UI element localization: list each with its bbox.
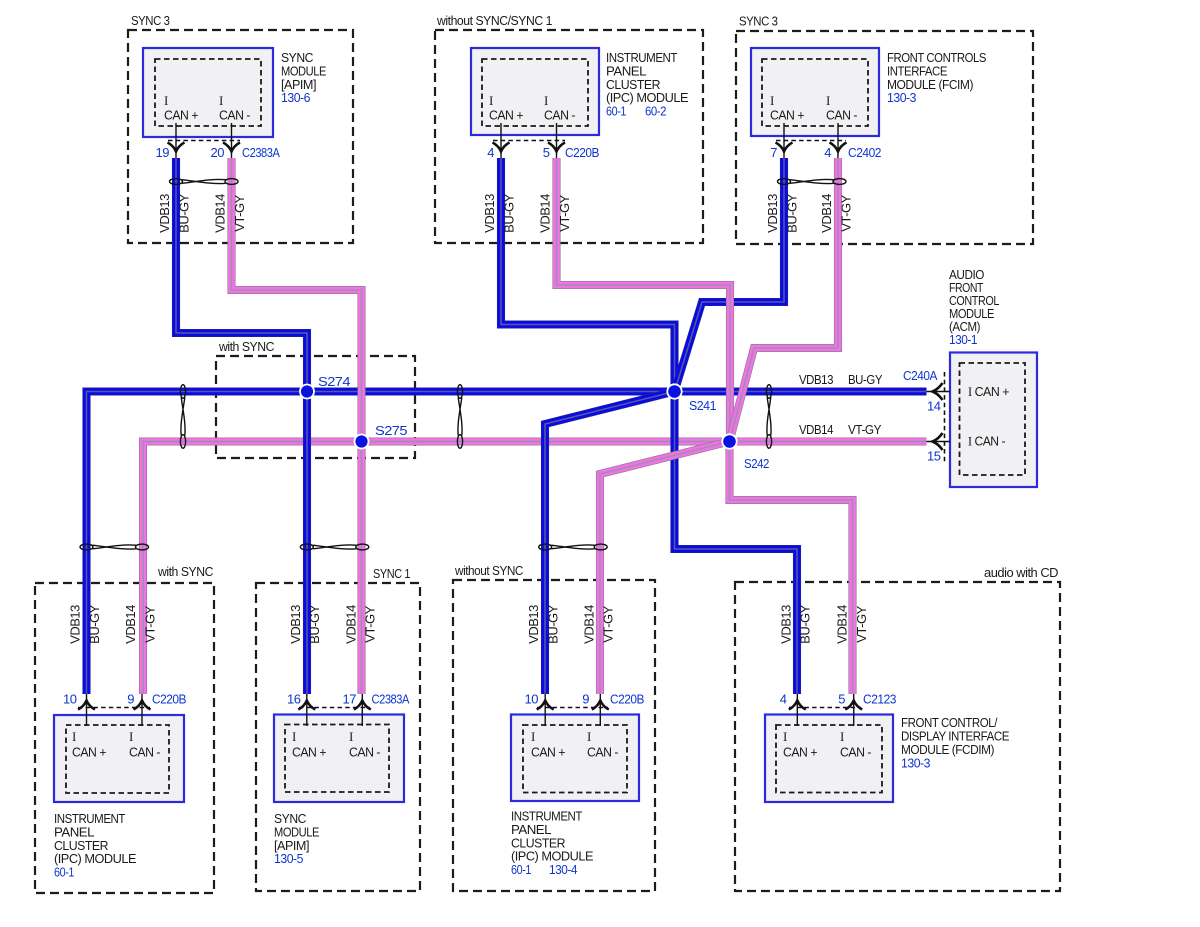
pin lines bottom modules (87, 694, 854, 726)
svg-text:BU-GY: BU-GY (848, 372, 883, 387)
svg-text:C2123: C2123 (863, 692, 896, 707)
svg-text:CAN -: CAN - (826, 108, 857, 123)
svg-text:CAN -: CAN - (129, 745, 160, 760)
svg-text:10: 10 (63, 692, 77, 707)
pin arrow 5 top-mid (548, 143, 565, 152)
vertical wire labels bottom-left (68, 604, 158, 644)
svg-text:VDB13: VDB13 (778, 605, 793, 644)
module box FCDIM (765, 715, 893, 803)
svg-text:VDB14: VDB14 (123, 605, 138, 644)
svg-text:5: 5 (838, 692, 845, 707)
svg-text:CAN +: CAN + (531, 745, 565, 760)
svg-text:CAN +: CAN + (783, 745, 817, 760)
svg-text:VDB13: VDB13 (68, 605, 83, 644)
module box FCIM (751, 48, 879, 136)
svg-text:I: I (840, 729, 844, 744)
pin arrow 7 (776, 143, 793, 152)
region box audio with CD (735, 582, 1060, 891)
vertical wire labels sync1 (288, 604, 378, 644)
region box with SYNC bottom-left (35, 583, 214, 893)
svg-text:I: I (129, 729, 133, 744)
twisted pair symbol bottom-left (80, 544, 149, 550)
wire VDB14 bus (pink) left branch + horizontal run to ACM (143, 442, 927, 695)
vertical wire labels wos (526, 604, 616, 644)
pin arrow 4 fcdim (789, 701, 806, 710)
svg-text:130-5: 130-5 (274, 851, 303, 866)
pin arrow 4 top-mid (493, 143, 510, 152)
svg-text:VDB14: VDB14 (835, 605, 850, 644)
wire VDB14 from S242 to FCDIM (730, 442, 853, 695)
wire VDB13 from S241 to FCDIM (675, 392, 798, 695)
connector dashes bottom (78, 707, 861, 709)
svg-text:4: 4 (780, 692, 787, 707)
region box without SYNC/SYNC 1 (435, 30, 703, 243)
svg-text:I: I (349, 729, 353, 744)
module box IPC bottom (511, 715, 639, 802)
svg-text:CAN +: CAN + (292, 745, 326, 760)
svg-text:CAN -: CAN - (544, 108, 575, 123)
svg-text:VDB13: VDB13 (288, 605, 303, 644)
svg-text:VT-GY: VT-GY (848, 422, 882, 437)
svg-text:10: 10 (525, 692, 539, 707)
svg-text:7: 7 (770, 145, 777, 160)
svg-text:9: 9 (582, 692, 589, 707)
twisted pair symbol bus x183 (180, 385, 185, 449)
svg-text:VT-GY: VT-GY (232, 194, 247, 231)
svg-text:CAN -: CAN - (840, 745, 871, 760)
wire VDB14 from IPC without SYNC/SYNC1 to S242 (557, 158, 731, 442)
svg-text:VT-GY: VT-GY (601, 605, 616, 642)
svg-text:CAN +: CAN + (770, 108, 804, 123)
pin arrow 20 (223, 143, 240, 152)
wire VDB13 bus (blue) left branch + horizontal run to ACM (87, 392, 927, 695)
twisted pair symbol bus x460 (457, 385, 462, 449)
svg-text:5: 5 (543, 145, 550, 160)
svg-text:VDB13: VDB13 (765, 194, 780, 233)
svg-text:S275: S275 (375, 423, 407, 438)
vertical wire labels fcdim (778, 604, 869, 644)
svg-text:SYNC 3: SYNC 3 (739, 14, 778, 29)
svg-text:BU-GY: BU-GY (501, 193, 516, 233)
region box with SYNC middle (216, 356, 415, 458)
svg-text:130-3: 130-3 (901, 755, 930, 770)
svg-text:130-6: 130-6 (281, 90, 310, 105)
svg-text:14: 14 (927, 399, 941, 414)
svg-text:VT-GY: VT-GY (557, 194, 572, 231)
splice S241 (667, 384, 681, 398)
pin arrow 17 (354, 701, 371, 710)
twisted pair symbol top-left (170, 179, 239, 185)
svg-text:VDB14: VDB14 (799, 422, 833, 437)
svg-text:I: I (219, 93, 223, 108)
svg-text:130-1: 130-1 (949, 332, 977, 347)
pin arrow 16 (298, 701, 315, 710)
svg-text:60-1: 60-1 (511, 862, 531, 877)
svg-text:VDB14: VDB14 (343, 605, 358, 644)
svg-text:BU-GY: BU-GY (546, 604, 561, 644)
region box SYNC 3 top-right (736, 31, 1033, 244)
svg-text:I: I (164, 93, 168, 108)
pin arrow 9 bl (134, 701, 151, 710)
svg-text:CAN -: CAN - (349, 745, 380, 760)
svg-text:VDB14: VDB14 (581, 605, 596, 644)
connector dashes ACM (944, 372, 946, 462)
svg-text:I: I (544, 93, 548, 108)
pin arrow 10 bl (78, 701, 95, 710)
svg-text:C2402: C2402 (848, 145, 881, 160)
pin arrow 4 fcim (830, 143, 847, 152)
pin arrow 9 wos (592, 701, 609, 710)
svg-text:I: I (489, 93, 493, 108)
svg-text:VT-GY: VT-GY (838, 194, 853, 231)
pin arrow 5 fcdim (845, 701, 862, 710)
svg-text:without SYNC/SYNC 1: without SYNC/SYNC 1 (436, 13, 552, 28)
svg-text:VDB14: VDB14 (213, 194, 228, 233)
svg-text:C220B: C220B (152, 692, 186, 707)
svg-text:S242: S242 (744, 456, 769, 471)
svg-text:VT-GY: VT-GY (854, 605, 869, 642)
module box IPC top (471, 48, 599, 135)
module box ACM (950, 353, 1037, 488)
svg-text:C220B: C220B (610, 692, 644, 707)
svg-text:20: 20 (211, 145, 225, 160)
wire VDB14 from FCIM to S242 (730, 158, 839, 442)
svg-text:BU-GY: BU-GY (784, 193, 799, 233)
svg-text:CAN +: CAN + (489, 108, 523, 123)
svg-text:VDB13: VDB13 (526, 605, 541, 644)
region box without SYNC (453, 580, 655, 891)
splice S274 (300, 385, 314, 399)
twisted pair symbol top-right (778, 179, 847, 185)
pin lines ACM (927, 392, 951, 442)
svg-text:C2383A: C2383A (372, 692, 410, 707)
pin arrow 19 (168, 143, 185, 152)
vertical wire labels top-left (157, 193, 247, 233)
svg-text:VDB14: VDB14 (538, 194, 553, 233)
svg-text:SYNC 1: SYNC 1 (373, 566, 410, 581)
svg-text:I: I (587, 729, 591, 744)
svg-text:9: 9 (127, 692, 134, 707)
svg-text:I: I (770, 93, 774, 108)
svg-text:BU-GY: BU-GY (798, 604, 813, 644)
svg-text:19: 19 (156, 145, 170, 160)
pin arrow 14 acm (933, 383, 943, 400)
svg-text:VT-GY: VT-GY (363, 605, 378, 642)
svg-text:60-1: 60-1 (54, 865, 74, 880)
svg-text:17: 17 (343, 692, 357, 707)
region box SYNC 3 top-left (128, 30, 353, 243)
svg-text:60-1: 60-1 (606, 104, 626, 119)
wire VDB14 from S242 to IPC without SYNC (600, 442, 730, 695)
twisted pair symbol bottom without-SYNC (539, 544, 608, 550)
svg-text:130-3: 130-3 (887, 90, 916, 105)
twisted pair symbol bottom SYNC1 (300, 544, 369, 550)
vertical wire labels top-right (765, 193, 853, 233)
svg-text:VDB13: VDB13 (799, 372, 833, 387)
svg-text:130-4: 130-4 (549, 862, 577, 877)
svg-text:with SYNC: with SYNC (218, 339, 274, 354)
svg-text:I: I (783, 729, 787, 744)
twisted pair symbol bus x769 (766, 385, 771, 449)
svg-text:I: I (292, 729, 296, 744)
svg-text:with SYNC: with SYNC (157, 564, 213, 579)
svg-text:S241: S241 (689, 398, 716, 413)
svg-text:VT-GY: VT-GY (142, 605, 157, 642)
svg-text:without SYNC: without SYNC (454, 563, 523, 578)
connector dashes top (168, 140, 846, 142)
wire VDB14 from SYNC module APIM 130-6 through S275 to APIM 130-5 (232, 158, 362, 694)
svg-text:CAN +: CAN + (72, 745, 106, 760)
svg-text:BU-GY: BU-GY (87, 604, 102, 644)
wire VDB13 from FCIM to S241 (675, 158, 785, 392)
wire VDB13 from IPC without SYNC/SYNC1 to S241 (501, 158, 675, 392)
svg-text:C220B: C220B (565, 145, 599, 160)
svg-text:I CAN -: I CAN - (968, 434, 1005, 449)
pin arrow 10 wos (537, 701, 554, 710)
svg-text:CAN -: CAN - (587, 745, 618, 760)
pin lines top modules (176, 123, 838, 158)
vertical wire labels top-mid (482, 193, 572, 233)
pin arrow 15 acm (933, 433, 943, 450)
svg-text:SYNC 3: SYNC 3 (131, 13, 170, 28)
svg-text:audio with CD: audio with CD (984, 565, 1058, 580)
wire VDB13 from SYNC module APIM 130-6 through S274 to APIM 130-5 (176, 158, 307, 694)
svg-text:16: 16 (287, 692, 301, 707)
module box APIM 130-5 (274, 715, 404, 803)
svg-text:I: I (72, 729, 76, 744)
wire VDB13 from S241 to IPC without SYNC (545, 392, 675, 695)
svg-text:BU-GY: BU-GY (176, 193, 191, 233)
svg-text:CAN -: CAN - (219, 108, 250, 123)
svg-text:C2383A: C2383A (242, 145, 280, 160)
svg-text:C240A: C240A (903, 368, 938, 383)
module box IPC bottom-left (54, 715, 184, 802)
svg-text:I: I (531, 729, 535, 744)
splice S275 (355, 435, 369, 449)
svg-text:I CAN +: I CAN + (968, 384, 1009, 399)
svg-text:S274: S274 (318, 374, 350, 389)
svg-text:15: 15 (927, 449, 941, 464)
svg-text:VDB13: VDB13 (157, 194, 172, 233)
svg-text:CAN +: CAN + (164, 108, 198, 123)
svg-text:BU-GY: BU-GY (307, 604, 322, 644)
svg-text:4: 4 (824, 145, 831, 160)
svg-text:VDB13: VDB13 (482, 194, 497, 233)
svg-text:4: 4 (487, 145, 494, 160)
splice S242 (722, 434, 736, 448)
region box SYNC 1 (256, 583, 420, 891)
svg-text:VDB14: VDB14 (819, 194, 834, 233)
svg-text:I: I (826, 93, 830, 108)
module box SYNC MODULE APIM 130-6 (143, 48, 273, 137)
svg-text:60-2: 60-2 (645, 104, 666, 119)
